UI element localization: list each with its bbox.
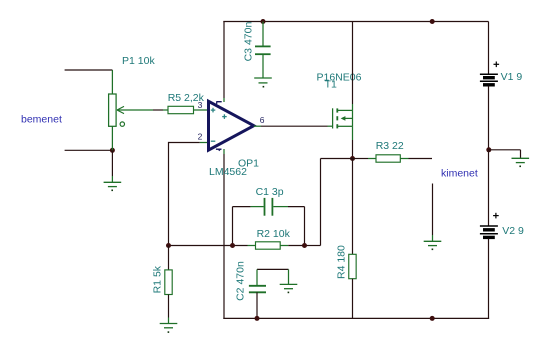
resistor R2 (248, 242, 305, 249)
node C3 top rail (261, 19, 266, 24)
node T1 source junction (350, 156, 355, 161)
label R5 2,2k (168, 92, 205, 104)
wire input bottom stub (65, 149, 113, 151)
label LM4562 (209, 166, 247, 178)
wire feedback node row (169, 245, 248, 247)
label V1 9 (501, 71, 523, 83)
label R2 10k (257, 228, 291, 240)
wire input node to ground (111, 150, 113, 182)
wire kimenet stub (409, 158, 433, 160)
node bottom rail x432 (430, 316, 435, 321)
wire junction left branch (305, 159, 353, 246)
svg-text:3: 3 (198, 100, 203, 110)
label bemenet (21, 114, 62, 126)
svg-text:C1 3p: C1 3p (256, 186, 284, 198)
resistor R3 (353, 155, 409, 162)
label R4 180 (335, 245, 347, 279)
battery V2 (480, 226, 498, 237)
transistor T1 (333, 104, 353, 140)
wire op-amp output to gate (254, 125, 333, 127)
wire inverting input feedback (169, 142, 208, 246)
ground C2 (280, 284, 298, 293)
label P16NE06 (317, 71, 362, 83)
pin 3 label (198, 100, 203, 110)
svg-text:R2 10k: R2 10k (257, 228, 291, 240)
wire op-amp V+ power from top rail (223, 22, 225, 103)
label C2 470n (234, 261, 246, 301)
ground input (104, 182, 122, 191)
label OP1 (238, 157, 259, 169)
resistor R4 (349, 159, 356, 320)
svg-text:T1: T1 (325, 79, 337, 91)
svg-text:bemenet: bemenet (21, 114, 62, 126)
ground mid supply (512, 158, 530, 167)
node input junction (110, 148, 115, 153)
V1 plus sign (494, 62, 500, 68)
label C3 470n (243, 22, 255, 62)
ground R1 (160, 324, 178, 333)
capacitor C2 (249, 269, 289, 319)
top rail wire (223, 21, 488, 23)
svg-text:P16NE06: P16NE06 (317, 71, 362, 83)
node top rail x432 (430, 19, 435, 24)
V2 plus sign (493, 213, 499, 219)
svg-text:2: 2 (198, 132, 203, 142)
pin 6 label (260, 115, 265, 125)
node mid supply (486, 147, 491, 152)
wire wiper to R5 (153, 109, 163, 111)
wire op-amp V- power to bottom rail (223, 149, 225, 319)
resistor R1 (165, 246, 172, 324)
wire mid node to ground (489, 150, 521, 159)
wire T1 drain from top rail (352, 22, 354, 105)
node R2 right (302, 243, 307, 248)
node R2 left (230, 243, 235, 248)
svg-text:C2 470n: C2 470n (234, 261, 246, 301)
resistor R5 (163, 106, 208, 113)
wire input top stub (65, 69, 113, 71)
ground floating (424, 241, 442, 250)
svg-text:LM4562: LM4562 (209, 166, 247, 178)
pin 2 label (198, 132, 203, 142)
svg-text:kimenet: kimenet (441, 167, 478, 179)
svg-text:P1 10k: P1 10k (122, 55, 155, 67)
svg-text:R3 22: R3 22 (376, 140, 404, 152)
ground C3 (254, 78, 272, 88)
potentiometer P1 (109, 70, 153, 150)
label T1 (325, 79, 337, 91)
capacitor C1 (233, 198, 305, 246)
svg-text:V2 9: V2 9 (502, 225, 524, 237)
svg-text:6: 6 (260, 115, 265, 125)
wire right column top (488, 22, 490, 75)
label R1 5k (151, 265, 163, 293)
svg-text:C3 470n: C3 470n (243, 22, 255, 62)
svg-text:R4 180: R4 180 (335, 245, 347, 279)
label P1 10k (122, 55, 155, 67)
label R3 22 (376, 140, 404, 152)
label kimenet (441, 167, 478, 179)
battery V1 (480, 74, 498, 85)
svg-text:V1 9: V1 9 (501, 71, 523, 83)
svg-text:R1 5k: R1 5k (151, 265, 163, 293)
label C1 3p (256, 186, 284, 198)
wire V1 to mid node (488, 86, 490, 150)
wire mid node to V2 (488, 150, 490, 226)
capacitor C3 (255, 22, 271, 79)
bottom rail wire (223, 317, 489, 319)
node C2 bottom rail (255, 316, 260, 321)
op-amp OP1 (209, 101, 254, 151)
wire C2 to local ground (288, 269, 290, 284)
wire T1 source down (352, 140, 354, 159)
label V2 9 (502, 225, 524, 237)
wire floating ground drop (432, 184, 434, 242)
wire V2 to bottom rail (488, 239, 490, 319)
node feedback left (166, 243, 171, 248)
